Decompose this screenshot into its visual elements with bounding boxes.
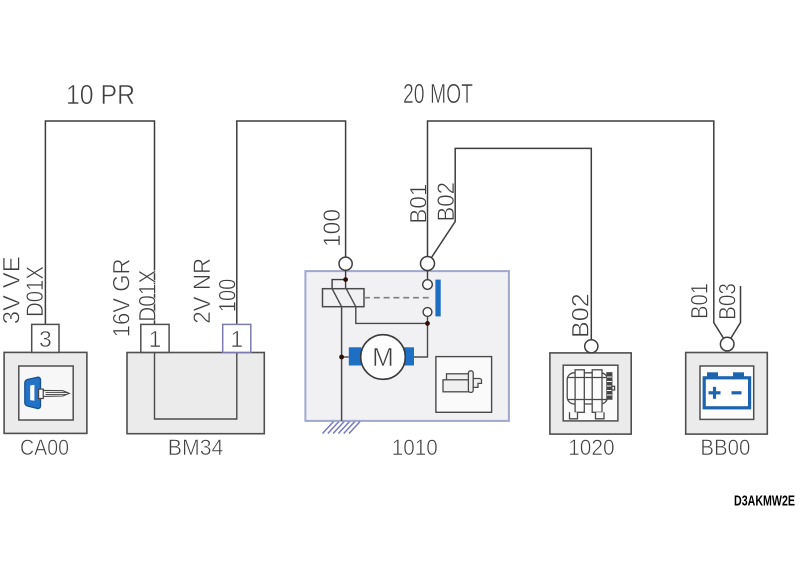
svg-text:1010: 1010 <box>392 435 438 460</box>
wire stub junction to hold winding <box>332 280 346 289</box>
svg-text:1020: 1020 <box>568 435 614 460</box>
contact circle lower <box>423 308 432 317</box>
terminal circle 1010 pin 2 <box>421 257 435 271</box>
battery icon <box>704 373 749 408</box>
svg-text:100: 100 <box>319 209 346 247</box>
svg-text:3: 3 <box>39 326 52 352</box>
pin 1 connector box on BM34 (left) <box>141 324 169 352</box>
svg-text:BB00: BB00 <box>700 435 750 460</box>
component CA00 ignition switch box <box>4 352 87 433</box>
wire terminal to coil junction inside 1010 <box>345 264 347 289</box>
contact blue bar <box>435 280 440 317</box>
ground symbol hatching <box>323 422 361 434</box>
coil winding diagonal 1 <box>332 289 342 307</box>
wire 3V VE D01X from CA00 pin 3 to BM34 pin 1 <box>45 121 154 353</box>
wire pull-in winding to motor node <box>356 307 428 324</box>
wire contact upper <box>427 264 429 290</box>
svg-text:B01: B01 <box>687 283 714 319</box>
wire contact lower to motor positive <box>414 308 428 357</box>
svg-text:16V GR: 16V GR <box>109 258 136 337</box>
svg-text:B01: B01 <box>406 184 433 224</box>
svg-text:BM34: BM34 <box>168 435 224 460</box>
component BB00 battery box <box>686 353 768 435</box>
svg-text:10 PR: 10 PR <box>66 79 135 110</box>
svg-text:20 MOT: 20 MOT <box>403 78 473 109</box>
relay solenoid coil box <box>323 289 365 307</box>
svg-text:2V NR: 2V NR <box>189 258 216 324</box>
svg-text:D01X: D01X <box>22 266 49 317</box>
terminal circle 1020 <box>585 340 598 353</box>
svg-text:100: 100 <box>215 279 242 313</box>
contact circle upper <box>423 280 433 290</box>
junction dot coil feed <box>343 277 348 282</box>
svg-text:D3AKMW2E: D3AKMW2E <box>734 493 795 510</box>
ignition key icon <box>25 377 70 408</box>
svg-text:D01X: D01X <box>135 270 162 322</box>
svg-text:CA00: CA00 <box>20 435 69 460</box>
junction dot motor negative node <box>339 355 344 360</box>
pin 3 connector box on CA00 <box>32 324 59 352</box>
component 1010 starter outer box <box>305 271 509 421</box>
svg-text:M: M <box>372 342 394 372</box>
starter icon box inside 1010 <box>436 357 492 413</box>
wire 2V NR 100 from BM34 pin 1 to starter 1010 terminal <box>237 121 346 353</box>
component 1020 alternator box <box>550 353 631 434</box>
junction dot motor positive node <box>425 321 430 326</box>
starter motor icon <box>443 371 482 393</box>
wire B01 from starter 1010 terminal to battery BB00 <box>428 121 728 344</box>
motor M circle <box>361 335 406 380</box>
component BM34 fuse box <box>127 353 264 434</box>
svg-text:1: 1 <box>149 326 162 352</box>
svg-text:B02: B02 <box>568 293 595 338</box>
dashed actuation line relay to contact <box>364 297 433 299</box>
svg-text:B03: B03 <box>715 283 742 320</box>
internal link inside BM34 <box>155 353 237 420</box>
motor brush right <box>403 347 415 365</box>
svg-text:B02: B02 <box>433 182 460 222</box>
alternator icon <box>567 370 614 419</box>
coil winding diagonal 2 <box>346 289 356 307</box>
wire hold winding to ground <box>341 307 343 421</box>
wire B03 stub to battery BB00 <box>727 286 740 344</box>
terminal circle BB00 <box>720 337 734 351</box>
svg-text:1: 1 <box>230 326 243 352</box>
motor brush left <box>349 347 362 365</box>
terminal circle 1010 pin 1 <box>339 257 352 270</box>
pin 1 connector box on BM34 (right) <box>223 324 251 352</box>
wire B02 from starter 1010 terminal to alternator 1020 <box>428 148 592 346</box>
wire motor negative to ground wire <box>342 356 349 358</box>
